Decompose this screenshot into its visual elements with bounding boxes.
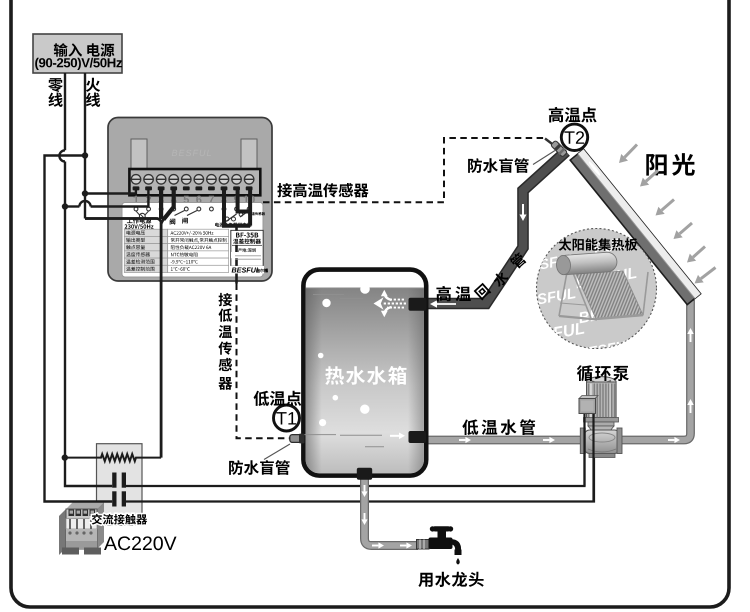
terminal pin 3 <box>158 186 165 190</box>
pump flanges <box>580 428 585 454</box>
terminal pin 8 <box>221 186 228 190</box>
tank bubbles <box>333 275 339 281</box>
terminal screw 2 <box>144 175 154 185</box>
terminal strip <box>129 169 260 195</box>
low temp sensor T1 fitting (防水盲管) <box>290 435 303 443</box>
contact 2 (bottom) bars <box>112 491 116 506</box>
label 零线 (neutral) <box>48 78 63 92</box>
T1 circle <box>274 405 300 431</box>
terminal pin 4 <box>170 186 177 190</box>
dashed sensor cable to low temp sensor T1 <box>237 284 291 439</box>
terminal screw 1 <box>131 175 141 185</box>
label tiny text 电源及负载供电线 <box>215 223 251 227</box>
label 用水龙头 <box>418 572 483 587</box>
terminal pin 1 <box>133 186 140 190</box>
label tiny text 阀 闸 <box>170 219 176 225</box>
label 防水盲管 (T2) <box>468 158 529 173</box>
label 防水盲管 (T1) <box>229 460 290 475</box>
terminal screw 6 <box>194 175 204 185</box>
contactor coil + contacts box (交流接触器) <box>97 444 143 526</box>
terminal pin 5 <box>183 186 190 190</box>
solar heater clipart: tube array <box>576 271 643 319</box>
cold water pipes 低温水管 (gray) <box>420 436 581 445</box>
wire: relay output terminals 3,4 to contactor coil <box>159 188 163 219</box>
sunlight arrows <box>625 145 637 158</box>
wire: neutral 零线 from power box down to contactor, with hop over crossing <box>64 73 66 150</box>
wire: contact outputs to pump <box>126 446 585 486</box>
label 低温水管 <box>462 419 535 435</box>
label 接低温传感器 (vertical) <box>219 293 233 306</box>
BF-35B type info box <box>231 230 263 266</box>
embossed BESFUL logo on controller <box>172 150 211 156</box>
terminal pin 7 <box>208 186 215 190</box>
pump neck <box>584 418 619 423</box>
label 高温点 <box>549 107 597 123</box>
label terminal rings <box>134 207 138 211</box>
BESFUL logo on label <box>232 268 260 273</box>
label 热水水箱 <box>325 366 406 385</box>
solar collector detail circle 太阳能集热板 <box>537 229 657 349</box>
terminal screw 3 <box>156 175 166 185</box>
label 火线 (live) <box>86 78 100 92</box>
solar heater clipart: tank cylinder <box>556 252 618 276</box>
pump motor body with fins <box>587 382 617 418</box>
label 循环泵 <box>577 365 629 381</box>
T2 circle <box>561 124 587 150</box>
relay contact symbols (sensor terminals) <box>225 217 229 221</box>
terminal pin 10 <box>246 186 253 190</box>
tank low outlet fitting <box>409 431 427 443</box>
wire: live 火线 from power box down <box>84 73 86 219</box>
inlet flow arrows <box>383 300 406 308</box>
dashed sensor cable to high temp sensor T2 <box>263 138 546 202</box>
terminal screw 7 <box>207 175 217 185</box>
contactor device drawing (3D) <box>59 509 66 555</box>
terminal strip mounting tabs <box>131 139 147 170</box>
terminal screw 10 <box>244 175 254 185</box>
terminal screw 4 <box>169 175 179 185</box>
power plug symbol on label <box>136 211 140 216</box>
temperature controller BF-35B body <box>108 118 272 282</box>
label 高温回水管 along pipe <box>436 286 470 302</box>
high temp sensor T2 capsule (防水盲管) <box>550 140 568 158</box>
terminal numbers 1-10 <box>134 196 139 204</box>
contactor label 交流接触器 <box>92 514 147 525</box>
wire: live branch to terminal 1 <box>85 188 136 194</box>
tank detail lines <box>313 294 344 296</box>
tank top inlet fitting <box>409 298 427 311</box>
label AC220V <box>104 536 177 550</box>
terminal pin 2 <box>145 186 152 190</box>
contact 1 (top) bars <box>112 473 116 488</box>
terminal screw 8 <box>219 175 229 185</box>
water tap 用水龙头 <box>417 540 430 550</box>
label tiny text 工作电源 230V/50Hz <box>127 218 151 224</box>
controller label panel <box>122 203 263 278</box>
relay switch symbol (valve outputs) <box>175 211 185 216</box>
power input box: 输入电源 (90-250)V/50Hz <box>33 34 122 73</box>
wire: sensor terminals 8,9,10 bus <box>224 188 250 226</box>
drain pipe to tap <box>365 459 419 546</box>
terminal screw 5 <box>182 175 192 185</box>
label 接高温传感器 <box>277 183 368 198</box>
solar heater clipart: frame <box>559 272 567 316</box>
solar collector panel (diagonal) <box>570 149 700 304</box>
hot water tank 热水水箱 <box>303 270 426 476</box>
wire: branch live to left rail <box>45 156 113 502</box>
tank bottom drain fitting <box>357 468 372 480</box>
pump junction box <box>579 396 598 399</box>
label 太阳能集热板 <box>559 238 638 251</box>
label 低温点 <box>254 391 302 406</box>
terminal pin 6 <box>195 186 202 190</box>
hot water return pipe 高温回水管 (dark) <box>421 152 566 304</box>
coil (zigzag) of contactor <box>65 454 161 461</box>
terminal screw 9 <box>232 175 242 185</box>
wire: neutral branch to terminal 2, hop over live wire <box>65 205 79 207</box>
controller spec table <box>124 229 167 236</box>
terminal pin 9 <box>233 186 240 190</box>
pump motor cap <box>587 377 617 388</box>
sunlight label 阳光 <box>646 153 695 176</box>
pump power wires <box>583 414 585 486</box>
wire: live to controller relay common (terminal 4 region) <box>85 217 158 219</box>
pump volute <box>585 430 620 454</box>
